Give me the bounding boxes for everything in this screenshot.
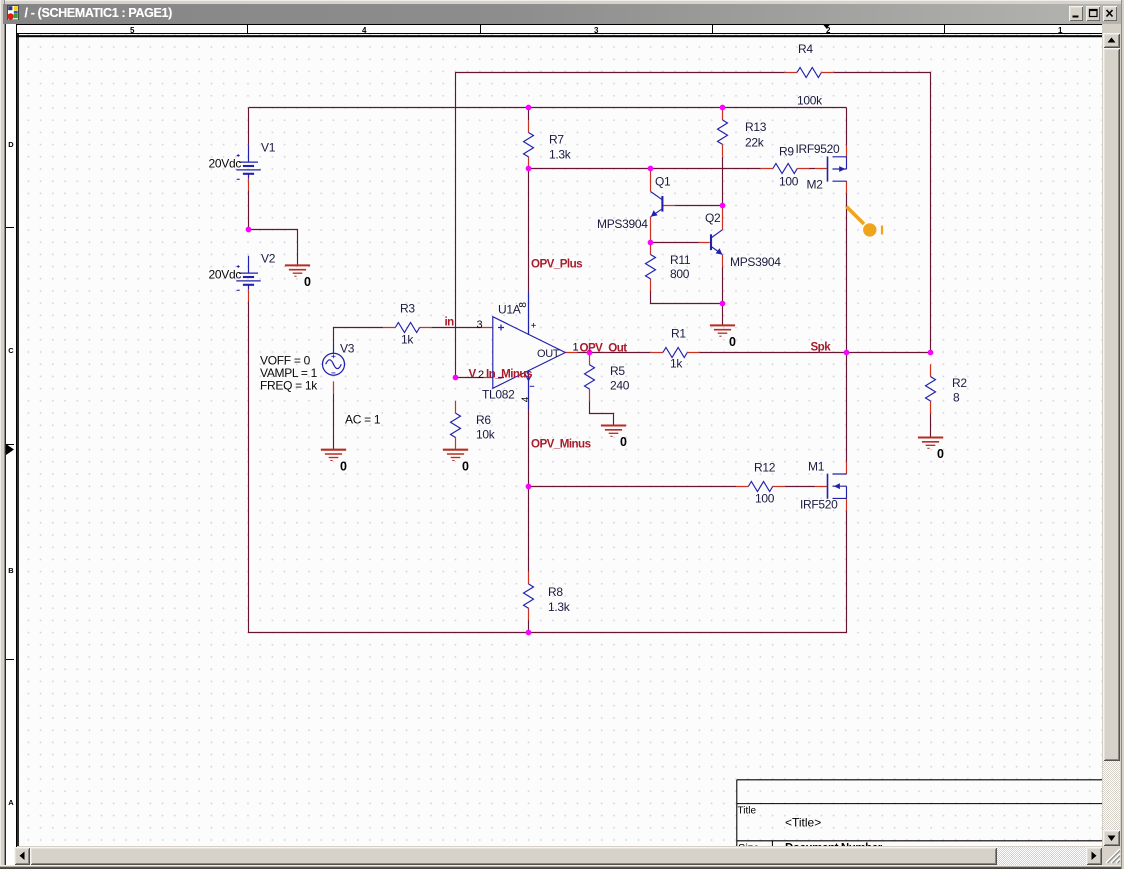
svg-text:1k: 1k bbox=[401, 333, 414, 347]
svg-text:R9: R9 bbox=[779, 145, 794, 159]
svg-text:4: 4 bbox=[520, 396, 531, 402]
svg-text:Title: Title bbox=[738, 806, 757, 817]
svg-text:1: 1 bbox=[573, 342, 579, 354]
svg-text:1k: 1k bbox=[670, 357, 683, 371]
svg-text:22k: 22k bbox=[745, 136, 765, 150]
svg-text:R1: R1 bbox=[671, 327, 686, 341]
svg-text:100k: 100k bbox=[797, 94, 823, 108]
svg-text:MPS3904: MPS3904 bbox=[597, 217, 648, 231]
svg-text:IRF9520: IRF9520 bbox=[796, 142, 841, 156]
svg-text:8: 8 bbox=[518, 302, 529, 308]
svg-text:10k: 10k bbox=[476, 428, 496, 442]
svg-text:Document Number: Document Number bbox=[785, 843, 883, 847]
svg-text:Size: Size bbox=[738, 843, 759, 847]
svg-text:OPV_Out: OPV_Out bbox=[580, 342, 628, 355]
svg-text:V1: V1 bbox=[261, 141, 276, 155]
svg-text:Spk: Spk bbox=[811, 341, 832, 354]
svg-text:M1: M1 bbox=[808, 460, 825, 474]
svg-text:100: 100 bbox=[779, 175, 799, 189]
svg-text:20Vdc: 20Vdc bbox=[209, 157, 242, 171]
svg-text:1.3k: 1.3k bbox=[548, 600, 571, 614]
svg-text:20Vdc: 20Vdc bbox=[209, 268, 242, 282]
svg-text:100: 100 bbox=[755, 492, 775, 506]
svg-text:800: 800 bbox=[670, 267, 690, 281]
svg-text:R13: R13 bbox=[745, 120, 767, 134]
svg-text:R11: R11 bbox=[670, 253, 691, 267]
svg-text:Q2: Q2 bbox=[705, 211, 721, 225]
svg-text:OPV_Minus: OPV_Minus bbox=[531, 438, 591, 451]
svg-text:1.3k: 1.3k bbox=[549, 148, 572, 162]
svg-text:MPS3904: MPS3904 bbox=[730, 255, 781, 269]
svg-text:OPV_Plus: OPV_Plus bbox=[531, 258, 582, 271]
svg-text:M2: M2 bbox=[807, 178, 824, 192]
svg-text:In_Minus: In_Minus bbox=[486, 368, 532, 381]
svg-text:3: 3 bbox=[477, 319, 483, 331]
svg-text:R3: R3 bbox=[400, 302, 415, 316]
svg-text:IRF520: IRF520 bbox=[800, 498, 838, 512]
svg-text:V: V bbox=[469, 368, 477, 381]
svg-text:240: 240 bbox=[610, 379, 630, 393]
svg-text:R7: R7 bbox=[549, 133, 564, 147]
svg-text:AC = 1: AC = 1 bbox=[345, 413, 381, 427]
svg-text:R6: R6 bbox=[476, 413, 491, 427]
svg-text:Q1: Q1 bbox=[655, 175, 671, 189]
svg-text:R2: R2 bbox=[952, 376, 967, 390]
svg-text:R12: R12 bbox=[754, 461, 776, 475]
svg-text:8: 8 bbox=[953, 391, 960, 405]
svg-text:V2: V2 bbox=[261, 252, 276, 266]
svg-text:OUT: OUT bbox=[537, 348, 560, 360]
svg-text:TL082: TL082 bbox=[482, 388, 515, 402]
svg-text:<Title>: <Title> bbox=[785, 816, 821, 830]
svg-text:R4: R4 bbox=[798, 42, 813, 56]
svg-text:R5: R5 bbox=[610, 364, 625, 378]
svg-text:V3: V3 bbox=[340, 342, 355, 356]
svg-text:2: 2 bbox=[478, 369, 484, 381]
svg-text:in: in bbox=[445, 316, 455, 329]
svg-text:R8: R8 bbox=[548, 585, 563, 599]
svg-text:FREQ = 1k: FREQ = 1k bbox=[260, 379, 318, 393]
